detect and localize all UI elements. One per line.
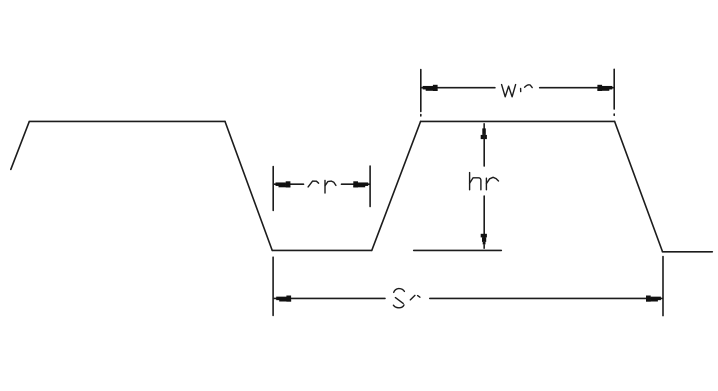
node cr extension line right [369,166,371,207]
wire cr dimension line left segment with arrow [274,181,304,187]
wire valley bottom flat [272,249,372,251]
wire wr dimension line left segment with arrow [421,85,495,91]
wire hr bottom reference line [414,249,502,251]
label Sr [393,289,420,308]
node wr extension line left [420,70,422,116]
wire web up-slope [372,121,421,250]
label wr [502,85,533,97]
label cr [308,180,336,193]
wire web down-slope 2 [615,121,663,251]
wire hr dimension vertical line upper segment with up arrow [481,123,487,166]
wire right bottom flat [662,251,712,253]
wire wr dimension line right segment with arrow [540,85,614,91]
wire left partial slope of previous rib [11,122,29,170]
node Sr extension line left [272,257,274,315]
wire hr dimension vertical line lower segment with down arrow [481,196,487,249]
node wr extension line right [613,69,615,115]
wire Sr dimension line right segment with arrow [430,296,663,302]
wire top flange 2 [421,120,615,122]
node Sr extension line right [662,257,664,316]
node cr extension line left [272,167,274,211]
wire web down-slope 1 [225,121,272,250]
wire top flange 1 [29,120,225,122]
label hr [470,173,499,190]
wire cr dimension line right segment with arrow [342,181,370,187]
wire Sr dimension line left segment with arrow [274,296,385,302]
